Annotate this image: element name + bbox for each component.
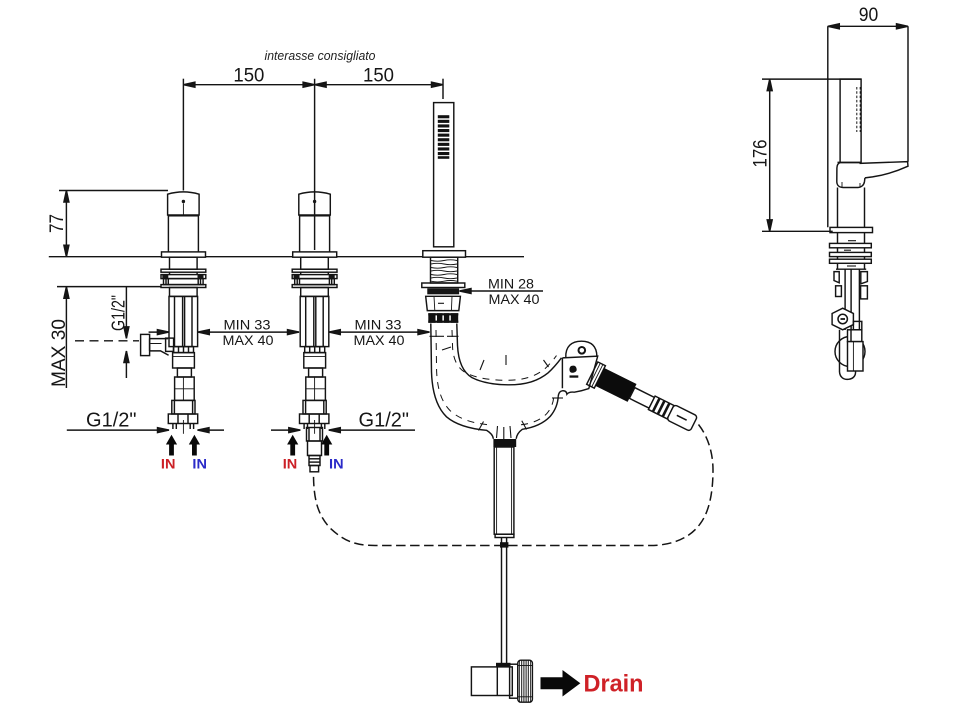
svg-text:G1/2": G1/2"	[109, 295, 129, 331]
side tab left	[836, 286, 842, 297]
washer plate 2 with lock ends	[161, 275, 206, 279]
countertop deck line	[49, 256, 524, 258]
extension line valve2 center	[314, 79, 316, 250]
valve V2 IN arrow hot	[287, 435, 298, 456]
svg-text:MAX 40: MAX 40	[223, 333, 274, 348]
connector block D	[172, 400, 195, 414]
side washer plate 2	[830, 252, 872, 256]
svg-text:MIN 33: MIN 33	[355, 318, 402, 333]
hole dim line between valves (fraction bar 1)	[198, 331, 299, 333]
handshower holder escutcheon	[423, 251, 466, 258]
side deck plate	[830, 227, 873, 232]
176 extension line bottom	[762, 230, 833, 232]
connector block C	[175, 377, 195, 400]
extension line valve1 center	[182, 79, 184, 191]
washer plate 1	[161, 269, 206, 272]
holder lock ring	[428, 289, 458, 294]
handle neck	[168, 216, 198, 252]
svg-text:IN: IN	[192, 457, 207, 472]
drain waste neck	[510, 664, 518, 698]
holder threaded tube	[431, 257, 458, 283]
svg-text:IN: IN	[283, 457, 298, 472]
drain pull rod	[501, 538, 503, 665]
hose dashed liner right	[452, 330, 557, 380]
side body cylinder	[838, 188, 865, 228]
77 dimension line	[65, 191, 67, 257]
side hose loop circle	[835, 337, 865, 367]
90 extension line left	[827, 26, 829, 227]
G1/2 small dimension line lower	[125, 351, 127, 378]
extension line shower center	[442, 79, 444, 99]
hose clamp collar (hatched)	[587, 362, 606, 388]
G1/2 small dimension line upper	[125, 287, 127, 339]
valve V2 lower stub block A	[307, 428, 323, 442]
supply stubs	[172, 424, 174, 430]
MAX 30 dimension line	[65, 287, 67, 388]
side hex valve fitting	[832, 308, 853, 330]
svg-text:150: 150	[233, 65, 264, 87]
valve V2 lower stub block B	[308, 441, 322, 456]
fitting body	[558, 356, 598, 396]
valve V1 side outlet flange	[141, 334, 150, 355]
drain overflow black band	[493, 439, 516, 447]
dimension line 150/150	[183, 84, 443, 86]
side bracket right	[861, 272, 868, 284]
thread collar	[174, 347, 194, 353]
valve V2 stub rings	[309, 456, 320, 466]
drain overflow body cylinder	[494, 447, 514, 534]
svg-text:G1/2": G1/2"	[359, 410, 410, 432]
dashed flexible supply hose loop	[314, 425, 714, 546]
svg-text:Drain: Drain	[584, 670, 644, 697]
hole dim line valve1 left	[149, 331, 169, 333]
washer plate 3	[161, 285, 206, 288]
drain waste body	[471, 667, 512, 696]
connector rings	[648, 396, 673, 419]
side connector block	[848, 330, 862, 342]
svg-text:interasse consigliato: interasse consigliato	[265, 48, 376, 63]
lock nut band	[164, 279, 204, 285]
side central tube	[845, 269, 859, 341]
handshower spray face rows	[438, 115, 450, 159]
flexible hose outer boundary	[431, 324, 494, 439]
holder washer plate	[422, 283, 465, 288]
svg-text:IN: IN	[161, 457, 176, 472]
fitting logo	[569, 366, 576, 373]
G1/2 leader valve1	[67, 429, 169, 431]
svg-text:MIN 28: MIN 28	[488, 277, 534, 292]
valve V1 side outlet pipe	[150, 339, 169, 356]
valve V1 IN arrow hot	[166, 435, 177, 456]
connector block B	[177, 368, 191, 377]
side washer plate 3	[830, 259, 872, 263]
drain knurled cap	[518, 660, 533, 702]
90 dimension line	[828, 25, 908, 27]
body block	[170, 288, 198, 297]
braided hose connector assembly (rotated group)	[587, 362, 700, 435]
hole dim line valve2 to shower (fraction bar 2)	[329, 331, 430, 333]
side braided connector	[848, 342, 864, 371]
pivot ring hole	[579, 347, 586, 354]
tailpiece tube section	[169, 296, 198, 346]
MAX 30 extension line	[57, 286, 161, 288]
escutcheon plate	[162, 252, 206, 257]
hose convolution ticks	[430, 335, 445, 337]
svg-text:MIN 33: MIN 33	[224, 318, 271, 333]
svg-text:MAX 40: MAX 40	[354, 333, 405, 348]
handshower wand body	[434, 103, 454, 247]
MIN 28 dim line	[460, 290, 544, 292]
hose pivot fitting dome	[566, 341, 597, 357]
side tab right	[861, 286, 868, 299]
svg-text:G1/2": G1/2"	[86, 410, 137, 432]
valve V1 IN arrow cold	[189, 435, 200, 456]
dashed centerline of side outlet	[75, 340, 139, 342]
connector tube	[629, 388, 654, 409]
svg-text:77: 77	[47, 214, 68, 233]
G1/2 leader valve2	[271, 429, 300, 431]
side bottom tube end	[840, 330, 856, 380]
drain body bottom cap	[495, 534, 514, 537]
holder threaded black ring	[428, 313, 458, 323]
svg-text:IN: IN	[329, 457, 344, 472]
90 extension line right	[907, 26, 909, 162]
side under-deck shank	[836, 233, 866, 270]
upper tube below deck	[170, 257, 198, 269]
valve V2 IN arrow cold	[321, 435, 332, 456]
drain funnel ticks	[497, 426, 498, 438]
drain arrow	[541, 671, 580, 696]
hose end fitting cap	[667, 405, 698, 432]
holder hex nut	[426, 296, 461, 310]
bottom hex nut	[168, 414, 197, 424]
rod collar	[500, 542, 508, 547]
176 dimension line	[769, 79, 771, 231]
valve V1 outlet junction block	[166, 338, 174, 351]
flexible hose inner boundary	[457, 324, 562, 385]
svg-text:MAX 40: MAX 40	[489, 292, 540, 307]
side washer plate 1	[830, 243, 872, 247]
braided hose black section	[595, 368, 636, 402]
side bracket left	[834, 272, 839, 283]
svg-text:176: 176	[751, 140, 772, 168]
77 extension line top	[59, 190, 168, 192]
valve V2 (right hand valve)	[292, 192, 337, 434]
side mixer body and lever	[838, 161, 862, 163]
connector block A	[173, 353, 195, 368]
side spray face hatch	[857, 87, 860, 132]
valve V2 stub end	[310, 466, 319, 472]
side view wand column	[840, 79, 861, 163]
side block right of hex	[853, 321, 861, 329]
svg-text:150: 150	[363, 65, 394, 87]
hose dashed liner left	[436, 330, 487, 425]
176 extension line top	[762, 78, 861, 80]
svg-text:90: 90	[859, 5, 879, 26]
rod bottom collar	[496, 663, 511, 667]
valve deck-mounted body prototype	[161, 192, 206, 434]
handle cap	[168, 192, 200, 215]
